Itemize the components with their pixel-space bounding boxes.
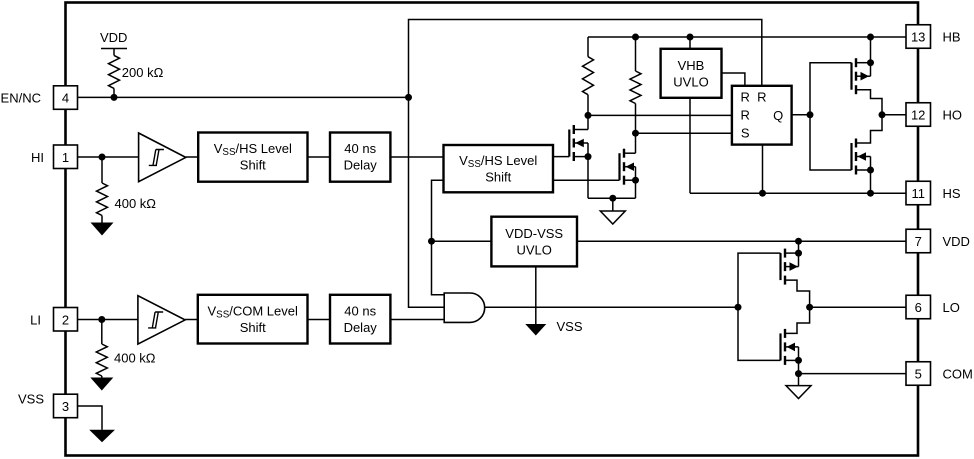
svg-text:400 kΩ: 400 kΩ xyxy=(114,350,156,365)
node HO FET source on HS line xyxy=(867,190,874,197)
block 40 ns Delay 2 xyxy=(330,295,390,344)
block VSS/HS Level Shift 1 xyxy=(198,133,307,182)
node R1 bottom junction xyxy=(585,112,592,119)
ground VSS arrow xyxy=(525,324,546,336)
wire delay 2 to AND bottom input xyxy=(390,319,444,321)
transistor Q5 (LO high-side PMOS) xyxy=(781,238,810,308)
svg-text:4: 4 xyxy=(62,90,69,105)
latch U3 (RS latch) xyxy=(732,86,792,145)
svg-text:1: 1 xyxy=(62,150,69,165)
pin 7 VDD xyxy=(906,229,970,253)
wire level shift 2 feedback to AND top input xyxy=(432,180,445,294)
transistor Q3 (HO high-side PMOS) xyxy=(852,37,883,115)
wire level shift sources join xyxy=(588,197,636,199)
ground (VSS pin) xyxy=(89,430,115,443)
node COM junction xyxy=(795,370,802,377)
wire EN over-route up and across to latch R xyxy=(409,20,762,98)
node HO driver top on HB rail xyxy=(867,34,874,41)
node R2 bottom junction xyxy=(632,130,639,137)
svg-text:11: 11 xyxy=(911,186,925,201)
pin 1 HI xyxy=(31,145,78,169)
block 40 ns Delay 1 xyxy=(330,133,390,182)
wire delay 1 to level shift 2 xyxy=(390,156,443,158)
ground COM reference (open) xyxy=(786,374,811,399)
svg-text:12: 12 xyxy=(911,107,925,122)
svg-text:HI: HI xyxy=(31,150,44,165)
svg-text:40 ns: 40 ns xyxy=(344,304,376,319)
svg-text:200 kΩ: 200 kΩ xyxy=(122,65,164,80)
transistor Q1 (level shift NMOS left) xyxy=(569,115,591,198)
node 200k/EN junction xyxy=(111,94,118,101)
schmitt buffer (HI) xyxy=(139,133,186,182)
svg-text:5: 5 xyxy=(915,366,922,381)
svg-text:VSS: VSS xyxy=(557,319,583,334)
svg-text:400 kΩ: 400 kΩ xyxy=(115,196,157,211)
wire AND output to LO driver xyxy=(485,306,738,308)
transistor Q6 (LO low-side NMOS) xyxy=(781,307,810,373)
pin 4 EN/NC xyxy=(1,86,78,110)
svg-text:Q: Q xyxy=(773,108,783,123)
wire UVLO left lead xyxy=(432,240,492,242)
node HI junction xyxy=(99,154,106,161)
wire UVLO bottom lead to VSS xyxy=(535,266,537,324)
wire EN down to AND gate middle input xyxy=(409,97,445,307)
schmitt buffer (LI) xyxy=(138,296,185,344)
wire HI from pin 1 to schmitt xyxy=(78,156,139,158)
wire resistor to EN line xyxy=(113,88,115,97)
block VDD-VSS UVLO xyxy=(491,217,577,267)
wire COM line to pin 5 xyxy=(799,373,907,375)
svg-text:UVLO: UVLO xyxy=(516,243,551,258)
svg-text:R: R xyxy=(757,89,766,104)
svg-text:40 ns: 40 ns xyxy=(344,141,376,156)
block VHB UVLO xyxy=(661,49,722,98)
AND gate U2 xyxy=(444,293,484,322)
node VHB UVLO top on HB rail xyxy=(687,34,694,41)
svg-text:COM: COM xyxy=(943,366,973,381)
wire schmitt to level shift 1 xyxy=(186,156,198,158)
wire S latch row from R2 xyxy=(636,132,732,134)
svg-text:HS: HS xyxy=(943,186,961,201)
node LI junction xyxy=(98,316,105,323)
svg-text:Delay: Delay xyxy=(344,158,378,173)
node LO output xyxy=(806,304,813,311)
node HO driver input xyxy=(807,111,814,118)
wire level shift 2 upper output to Q1 gate xyxy=(553,156,569,158)
svg-text:3: 3 xyxy=(62,399,69,414)
wire latch bottom lead xyxy=(762,145,764,194)
svg-text:VSS: VSS xyxy=(18,391,44,406)
svg-text:HB: HB xyxy=(943,29,961,44)
wire LI from pin 2 to schmitt xyxy=(78,319,138,321)
wire latch Q output to HO driver xyxy=(792,114,810,116)
svg-text:Delay: Delay xyxy=(344,320,378,335)
svg-text:S: S xyxy=(741,125,750,140)
wire level shift 1 to delay 1 xyxy=(308,156,331,158)
node EN junction xyxy=(405,94,412,101)
wire schmitt to COM level shift xyxy=(185,319,198,321)
resistor R 400k (HI) xyxy=(97,157,157,223)
wire COM level shift to delay 2 xyxy=(308,319,331,321)
svg-text:R: R xyxy=(741,89,750,104)
ground (LI pulldown) xyxy=(90,378,113,391)
svg-text:7: 7 xyxy=(915,234,922,249)
svg-text:VDD-VSS: VDD-VSS xyxy=(505,226,563,241)
svg-text:UVLO: UVLO xyxy=(673,75,708,90)
svg-text:Shift: Shift xyxy=(485,170,511,185)
node UVLO/feedback junction xyxy=(428,238,435,245)
block VSS/COM Level Shift xyxy=(198,295,308,344)
wire level shift 2 lower output to Q2 gate xyxy=(553,179,620,181)
pin 11 HS xyxy=(906,181,961,205)
wire VHB UVLO bottom lead to HS line xyxy=(689,98,691,193)
svg-text:Shift: Shift xyxy=(240,320,266,335)
wire HB rail xyxy=(588,36,906,38)
ground (HI pulldown) xyxy=(91,223,114,236)
wire VHB UVLO top lead xyxy=(689,37,691,49)
wire R latch row from R1 xyxy=(588,114,732,116)
svg-text:LI: LI xyxy=(30,312,41,327)
wire EN/NC horizontal from pin 4 xyxy=(78,96,409,98)
pin 3 VSS xyxy=(18,391,78,417)
svg-text:2: 2 xyxy=(62,312,69,327)
svg-text:VHB: VHB xyxy=(678,58,705,73)
svg-text:VDD: VDD xyxy=(100,30,127,45)
wire HS line xyxy=(690,192,906,194)
ground HS reference (open) xyxy=(600,198,625,224)
resistor R1 (level shift pullup) xyxy=(583,37,594,115)
VDD rail symbol xyxy=(100,30,127,55)
pin 13 HB xyxy=(906,25,961,49)
transistor Q2 (level shift NMOS right) xyxy=(620,133,640,198)
node LO driver input xyxy=(735,304,742,311)
LO driver gate bracket xyxy=(738,253,781,360)
svg-text:VDD: VDD xyxy=(943,234,970,249)
svg-text:EN/NC: EN/NC xyxy=(1,90,41,105)
svg-text:R: R xyxy=(741,107,750,122)
node HS-ref ground tap xyxy=(609,195,616,202)
svg-text:13: 13 xyxy=(911,29,925,44)
wire VHB UVLO right lead to latch R xyxy=(722,73,745,86)
pin 12 HO xyxy=(906,103,962,127)
wire HO output to pin 12 xyxy=(882,114,906,116)
wire LO output to pin 6 xyxy=(810,306,906,308)
svg-text:HO: HO xyxy=(943,107,963,122)
wire UVLO right lead to VDD pin 7 xyxy=(577,240,906,242)
block VSS/HS Level Shift 2 xyxy=(444,145,554,192)
resistor R 200k xyxy=(109,55,120,88)
pin 5 COM xyxy=(906,362,973,386)
transistor Q4 (HO low-side NMOS) xyxy=(852,115,883,193)
svg-text:6: 6 xyxy=(915,300,922,315)
resistor R2 (level shift pullup) xyxy=(630,37,641,133)
pin 2 LI xyxy=(30,308,77,332)
resistor R 400k (LI) xyxy=(96,320,156,378)
wire pin 3 to ground xyxy=(78,406,103,430)
svg-text:Shift: Shift xyxy=(240,158,266,173)
node HO output xyxy=(879,111,886,118)
node latch bottom on HS line xyxy=(759,190,766,197)
svg-text:LO: LO xyxy=(943,300,960,315)
HO driver gate bracket xyxy=(810,63,852,170)
node R2 top on HB rail xyxy=(632,34,639,41)
pin 6 LO xyxy=(906,295,960,319)
